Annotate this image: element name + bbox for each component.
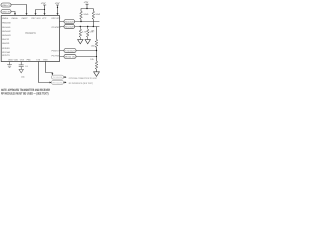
svg-text:TXD OUT: TXD OUT (65, 50, 76, 53)
svg-text:GND: GND (8, 58, 13, 61)
svg-text:10kΩ: 10kΩ (83, 13, 88, 16)
svg-text:RX DATA: RX DATA (53, 81, 64, 84)
svg-text:RXD IN: RXD IN (65, 56, 76, 59)
arrow RX out (65, 81, 67, 83)
pin arrow OSC2 (14, 13, 16, 15)
wire (81, 4, 93, 11)
svg-text:PE2/CS: PE2/CS (2, 54, 10, 57)
svg-text:10kΩ: 10kΩ (95, 13, 100, 16)
junction RXD/R6 (96, 56, 97, 57)
ground (7, 62, 12, 68)
svg-text:TX DATA: TX DATA (53, 76, 64, 79)
resistor R5 (95, 40, 98, 48)
wire (39, 62, 50, 83)
node TXD (64, 49, 76, 53)
wire (80, 19, 82, 21)
svg-text:VSS: VSS (20, 58, 25, 61)
wire (36, 5, 47, 13)
svg-text:PA1/AN1: PA1/AN1 (2, 26, 11, 29)
wire (11, 12, 15, 14)
ground (94, 72, 100, 77)
wire (60, 21, 100, 23)
arrow into RXOUT (50, 82, 52, 84)
pin arrow MCLR (57, 13, 59, 15)
node RXOUT (52, 80, 64, 84)
svg-text:PB1/B: PB1/B (12, 17, 19, 20)
wire (60, 56, 97, 58)
svg-text:RF INTERFACE (SEE TEXT): RF INTERFACE (SEE TEXT) (69, 82, 93, 85)
junction MCLR (57, 7, 58, 8)
resistor R1 (80, 11, 83, 19)
node TXOUT (52, 75, 64, 79)
junction SCL/R2 (93, 26, 94, 27)
pin arrow AVDD (35, 13, 37, 15)
wire (96, 47, 98, 61)
ground (19, 69, 23, 73)
wire (96, 69, 98, 72)
node XTAL1 (1, 3, 11, 7)
wire (64, 81, 65, 83)
svg-text:SCL BUS: SCL BUS (65, 26, 74, 29)
svg-text:PIC16F877A: PIC16F877A (25, 32, 36, 35)
svg-text:PE0/RD: PE0/RD (2, 47, 10, 50)
svg-text:RF MODULES MUST BE USED — (SEE: RF MODULES MUST BE USED — (SEE TEXT) (1, 91, 49, 95)
svg-text:+5V: +5V (84, 1, 89, 4)
wire (92, 19, 94, 26)
junction +5V rail (86, 8, 87, 9)
junction TXD/R5 (96, 50, 97, 51)
wire (64, 76, 65, 78)
svg-text:SDA BUS: SDA BUS (65, 21, 74, 24)
junction SCL/R4 (87, 26, 88, 27)
svg-text:OPTIONAL CONNECTION TO HOST: OPTIONAL CONNECTION TO HOST (69, 77, 98, 80)
pin arrow OSC1 (26, 13, 28, 15)
wire (46, 62, 53, 74)
svg-text:PC6/TX: PC6/TX (52, 50, 60, 53)
svg-text:PC4/SDA: PC4/SDA (52, 26, 62, 29)
svg-text:PA2/AN2: PA2/AN2 (2, 30, 11, 33)
wire (60, 50, 97, 52)
svg-text:VCC: VCC (42, 17, 47, 20)
svg-text:0.1: 0.1 (25, 65, 28, 68)
pin arrow VDD (44, 13, 46, 15)
svg-text:433MHz RX: 433MHz RX (2, 11, 11, 14)
ground (85, 40, 90, 44)
capacitor C1 (19, 62, 24, 70)
node SCL (64, 25, 75, 29)
arrow TX out (65, 76, 67, 78)
resistor R4 (86, 27, 89, 40)
node SDA (64, 20, 75, 24)
resistor R3 (79, 27, 82, 40)
IC U1 microcontroller (1, 16, 59, 62)
svg-text:PA4/T0: PA4/T0 (2, 38, 10, 41)
wire (11, 5, 27, 14)
svg-text:OSC VDD: OSC VDD (31, 17, 41, 20)
svg-text:+5V: +5V (55, 2, 60, 5)
svg-text:433MHz TX: 433MHz TX (2, 4, 11, 7)
resistor R6 (95, 61, 98, 69)
node XTAL2 (1, 10, 11, 14)
resistor R2 (92, 11, 95, 19)
junction SDA/R1 (80, 21, 81, 22)
arrow into TXOUT (51, 73, 53, 75)
svg-text:+5V: +5V (41, 2, 46, 5)
junction VDD branch (44, 9, 45, 10)
svg-text:PA5/SS: PA5/SS (2, 42, 10, 45)
ground (78, 40, 83, 44)
svg-text:1kΩ: 1kΩ (91, 45, 95, 48)
svg-text:PA3/AN3: PA3/AN3 (2, 34, 11, 37)
svg-text:PB2/C: PB2/C (22, 17, 29, 20)
svg-text:VDD: VDD (14, 58, 19, 61)
junction SCL/R3 (80, 26, 81, 27)
svg-text:PA0/AN0: PA0/AN0 (2, 21, 11, 24)
svg-text:PB0/A: PB0/A (2, 17, 9, 20)
svg-text:PC7/RX: PC7/RX (52, 54, 60, 57)
wire (56, 5, 59, 13)
wire (60, 26, 100, 28)
svg-text:PE1/WR: PE1/WR (2, 51, 10, 54)
svg-text:RST/VPP: RST/VPP (51, 17, 61, 20)
node RXD (64, 54, 76, 58)
wire (96, 27, 98, 40)
